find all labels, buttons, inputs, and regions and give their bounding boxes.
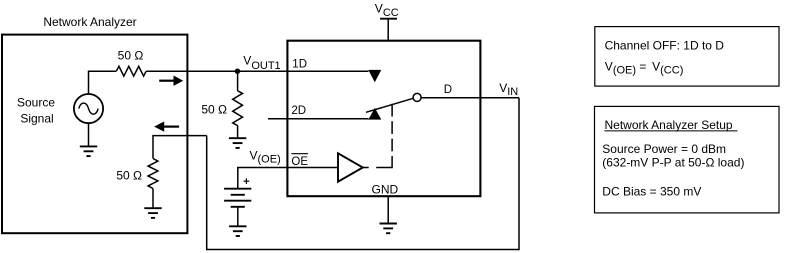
AC source signal generator xyxy=(74,94,103,123)
arrow annotation reverse direction xyxy=(154,122,179,132)
svg-text:(632-mV P-P at 50-Ω load): (632-mV P-P at 50-Ω load) xyxy=(602,155,744,169)
wire R2 to ground xyxy=(237,126,239,139)
svg-text:OE: OE xyxy=(291,156,308,168)
wire R3 to ground xyxy=(152,189,154,209)
IC device box xyxy=(287,41,480,197)
wire source top to main line xyxy=(89,71,117,94)
pin wire 2D stub xyxy=(268,118,369,120)
wire node to R2 xyxy=(237,71,239,91)
wire GND pin to ground xyxy=(387,196,389,223)
note box channel off xyxy=(595,27,779,87)
svg-text:Channel OFF: 1D to D: Channel OFF: 1D to D xyxy=(605,38,725,52)
wire bottom return loop to VIN xyxy=(207,98,519,250)
svg-text:Signal: Signal xyxy=(20,112,53,126)
battery V(OE) plus sign xyxy=(244,178,250,184)
OE enable buffer triangle xyxy=(338,153,363,181)
ground below R3 xyxy=(144,208,161,218)
resistor R3 50 ohm vertical xyxy=(148,159,158,189)
switch arm xyxy=(366,98,413,112)
wire return path horizontal xyxy=(153,136,207,159)
svg-text:Network Analyzer: Network Analyzer xyxy=(43,15,136,29)
battery V(OE) plates xyxy=(224,189,251,207)
svg-text:DC Bias = 350 mV: DC Bias = 350 mV xyxy=(602,184,701,198)
svg-text:Source: Source xyxy=(17,96,55,110)
svg-text:50 Ω: 50 Ω xyxy=(201,103,227,117)
1D channel triangle (down) xyxy=(368,70,381,82)
node VOUT1 junction dot xyxy=(235,69,240,74)
network analyzer enclosure box xyxy=(2,35,187,234)
svg-text:2D: 2D xyxy=(291,105,306,117)
wire D output to VIN xyxy=(421,97,519,99)
svg-text:50 Ω: 50 Ω xyxy=(116,169,142,183)
arrow annotation forward direction xyxy=(159,76,183,86)
svg-text:D: D xyxy=(444,84,452,96)
resistor R2 50 ohm vertical xyxy=(233,91,243,126)
svg-text:Network Analyzer Setup: Network Analyzer Setup xyxy=(605,118,733,132)
wire R1 to node VOUT1 and 1D input xyxy=(146,70,368,72)
svg-text:Source Power = 0 dBm: Source Power = 0 dBm xyxy=(602,142,726,156)
wire source bottom to ground xyxy=(88,123,90,146)
ground below battery xyxy=(229,226,246,236)
svg-text:50 Ω: 50 Ω xyxy=(118,48,144,62)
switch pole circle D xyxy=(413,93,421,101)
note box network analyzer setup xyxy=(595,106,780,212)
wire OE pin to V(OE) supply xyxy=(238,168,338,189)
ground below IC xyxy=(380,224,397,234)
ground below source xyxy=(80,146,97,156)
wire battery to ground xyxy=(237,207,239,227)
VCC supply rail xyxy=(380,19,397,41)
2D channel triangle (up) xyxy=(368,108,381,120)
svg-text:1D: 1D xyxy=(292,59,307,71)
dashed control line buffer to switch xyxy=(363,104,392,168)
svg-text:GND: GND xyxy=(372,183,399,197)
ground below R2 xyxy=(229,138,246,148)
resistor R1 50 ohm horizontal xyxy=(116,66,146,76)
